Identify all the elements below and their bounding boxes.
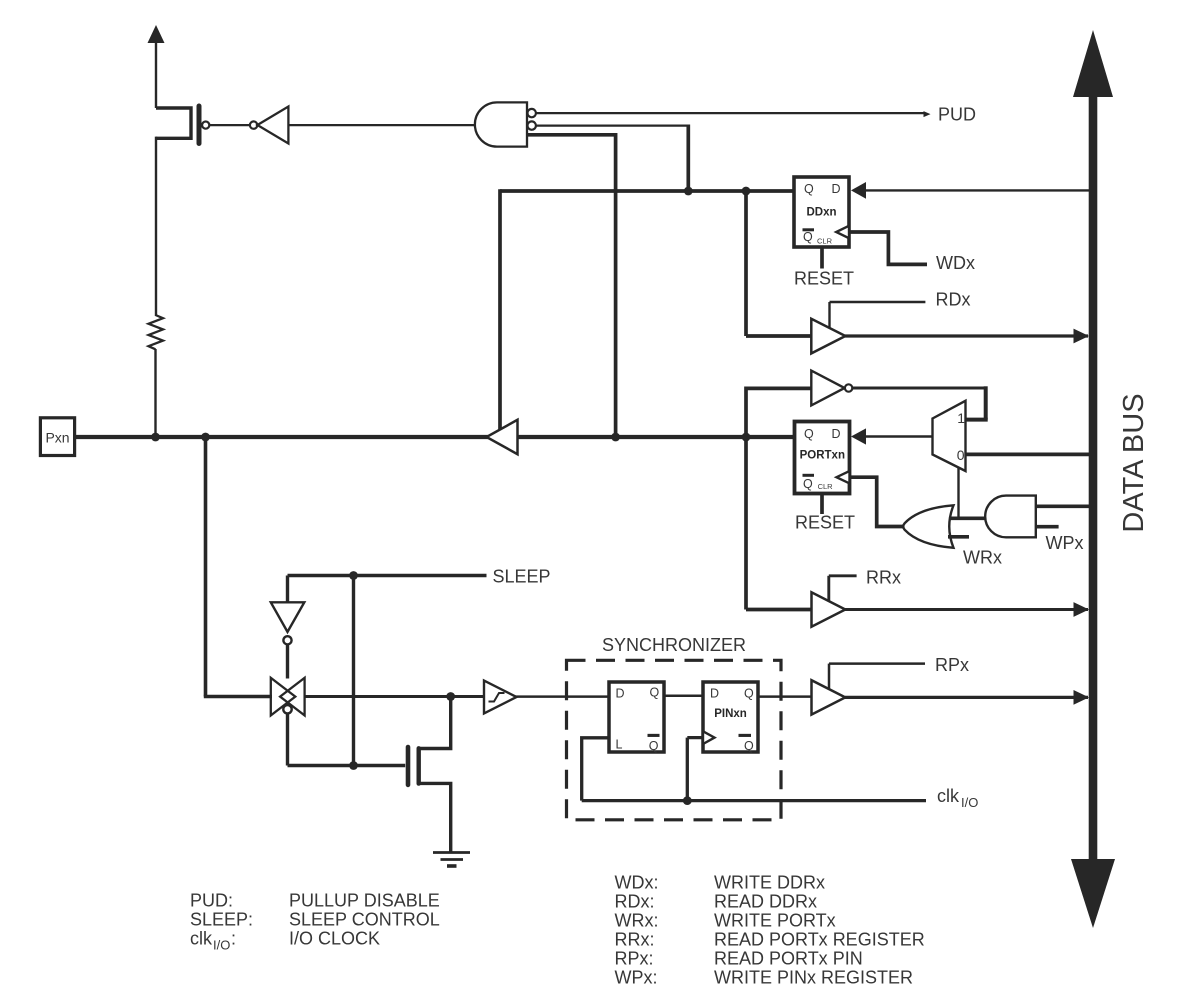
svg-text:RESET: RESET	[795, 513, 855, 533]
svg-text:DDxn: DDxn	[806, 206, 836, 218]
svg-text:READ PORTx PIN: READ PORTx PIN	[714, 949, 863, 969]
svg-text:WPx:: WPx:	[615, 968, 658, 988]
svg-text:PULLUP DISABLE: PULLUP DISABLE	[289, 891, 440, 911]
svg-text:D: D	[832, 182, 841, 196]
svg-text:Pxn: Pxn	[45, 430, 69, 446]
svg-text:RESET: RESET	[794, 269, 854, 289]
svg-text:WRITE DDRx: WRITE DDRx	[714, 873, 825, 893]
svg-text:Q: Q	[744, 686, 754, 700]
svg-text:SLEEP:: SLEEP:	[190, 910, 253, 930]
svg-text:Q: Q	[803, 230, 813, 244]
svg-text:PINxn: PINxn	[714, 708, 747, 720]
svg-text:SLEEP CONTROL: SLEEP CONTROL	[289, 910, 440, 930]
svg-text:Q: Q	[803, 477, 813, 491]
svg-text:Q: Q	[649, 739, 659, 753]
svg-text:0: 0	[957, 447, 965, 463]
svg-text:D: D	[710, 686, 719, 700]
svg-text:WRITE PINx REGISTER: WRITE PINx REGISTER	[714, 968, 913, 988]
svg-text:I/O: I/O	[213, 938, 230, 953]
svg-text:PORTxn: PORTxn	[800, 449, 845, 461]
svg-text:WDx: WDx	[936, 253, 975, 273]
svg-text:RDx:: RDx:	[615, 892, 655, 912]
svg-text:RDx: RDx	[936, 290, 971, 310]
svg-text:CLR: CLR	[818, 482, 834, 491]
svg-text:L: L	[616, 738, 623, 752]
svg-text:CLR: CLR	[817, 237, 833, 246]
svg-text:clk: clk	[190, 929, 213, 949]
svg-text:1: 1	[957, 410, 965, 426]
svg-text:PUD:: PUD:	[190, 891, 233, 911]
svg-text:RRx:: RRx:	[615, 930, 655, 950]
svg-text:clk: clk	[937, 786, 960, 806]
svg-text:Q: Q	[650, 686, 660, 700]
svg-text:Q: Q	[744, 739, 754, 753]
svg-text:SYNCHRONIZER: SYNCHRONIZER	[602, 635, 746, 655]
svg-text:RRx: RRx	[866, 568, 901, 588]
svg-text:I/O: I/O	[961, 795, 978, 810]
svg-text:Q: Q	[804, 182, 814, 196]
svg-text:Q: Q	[804, 427, 814, 441]
svg-text:READ DDRx: READ DDRx	[714, 892, 817, 912]
svg-text:WPx: WPx	[1046, 533, 1084, 553]
svg-text:D: D	[616, 686, 625, 700]
svg-text:READ PORTx REGISTER: READ PORTx REGISTER	[714, 930, 925, 950]
svg-text:SLEEP: SLEEP	[493, 567, 551, 587]
svg-text:WRITE PORTx: WRITE PORTx	[714, 911, 836, 931]
svg-text:I/O CLOCK: I/O CLOCK	[289, 929, 380, 949]
svg-text:WRx:: WRx:	[615, 911, 659, 931]
svg-text:WDx:: WDx:	[615, 873, 659, 893]
svg-text:WRx: WRx	[963, 548, 1002, 568]
svg-text:D: D	[832, 427, 841, 441]
svg-text:RPx: RPx	[935, 655, 969, 675]
svg-text:DATA BUS: DATA BUS	[1118, 393, 1150, 532]
svg-text::: :	[231, 929, 236, 949]
svg-text:RPx:: RPx:	[615, 949, 654, 969]
svg-text:PUD: PUD	[938, 105, 976, 125]
